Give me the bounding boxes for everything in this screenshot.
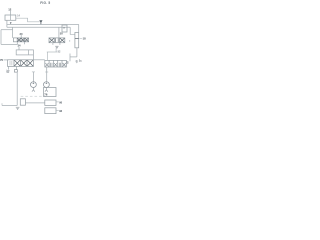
rail R3 short (1, 29, 13, 31)
P2 tee (45, 71, 48, 73)
box C2 (45, 100, 56, 105)
P1 shaft Y (32, 88, 35, 92)
drop from pump left to rails (6, 20, 8, 27)
linkage post (69, 54, 71, 62)
pump P1 circle (31, 82, 37, 88)
V4 cell symbols (45, 63, 65, 67)
box C1 pump unit (44, 88, 57, 97)
lead C2 (56, 101, 59, 103)
V2 bottom stubs (52, 43, 54, 45)
tank junction horizontal (2, 105, 17, 107)
junction left tick (1, 103, 3, 105)
pump unit divider (10, 15, 12, 20)
svg-text:52: 52 (58, 50, 61, 53)
pilot box (16, 50, 33, 55)
lower port stub (69, 40, 71, 42)
solenoid mark (14, 70, 17, 73)
flow arrow on rail R1 left (10, 22, 12, 24)
V3 spring (6, 70, 9, 73)
V2 feed (58, 27, 60, 38)
V3 X symbols (14, 60, 33, 66)
V1 cell dividers (17, 38, 24, 42)
V2 tank symbol (55, 46, 58, 48)
svg-text:14: 14 (17, 14, 20, 18)
pump unit box 12 (5, 15, 16, 20)
V3 cell1 marks (10, 61, 12, 65)
arrow into rail R1 (39, 20, 42, 23)
line from V3 to V4 (34, 59, 45, 61)
V4 cell dividers (49, 60, 62, 67)
pivot hatch right (76, 61, 78, 63)
pipe 14 (stepped) (16, 18, 40, 22)
cylinder piston (75, 38, 79, 40)
valve V4 body (45, 60, 67, 67)
svg-text:FIG. 5: FIG. 5 (40, 1, 50, 5)
lead line from 12 (10, 11, 12, 15)
V2 X symbols (49, 38, 64, 42)
return line y44 (1, 43, 17, 45)
pump P2 circle (44, 82, 50, 88)
junction box B on rails (62, 25, 67, 32)
svg-text:18: 18 (83, 37, 86, 41)
box C3 (45, 108, 56, 114)
lead 18 (80, 38, 83, 40)
linkage line from R2 (69, 27, 71, 34)
V1 bottom stubs (16, 42, 18, 45)
cylinder body (75, 33, 79, 48)
stub to V4 (47, 52, 49, 60)
V2 cell dividers (54, 38, 59, 43)
box B inner mark (63, 27, 65, 29)
piston rod (76, 48, 78, 57)
port into cylinder (70, 34, 75, 36)
tank base line (47, 51, 57, 53)
svg-text:90: 90 (59, 101, 62, 105)
arrow stem (40, 23, 42, 25)
V2 centre cell arrows (56, 38, 59, 42)
tank symbol (16, 107, 20, 110)
left return riser (0, 30, 2, 45)
valve V3 body (8, 60, 34, 67)
pilot drop to valve V3 (32, 55, 34, 60)
pump P1 riser (32, 72, 34, 82)
valve V1 body (13, 38, 28, 42)
lead to V1 (20, 35, 22, 38)
V3 solenoid stub (16, 66, 18, 69)
valve V2 body (49, 38, 65, 43)
P1 tee (32, 71, 35, 73)
lead arrow 70 (4, 59, 8, 61)
svg-text:12: 12 (8, 8, 12, 12)
tank stem (55, 48, 57, 52)
cylinder feed from R1 (78, 25, 80, 33)
V3 cell dividers (14, 60, 27, 67)
pilot tick below label (18, 47, 20, 50)
svg-text:70: 70 (0, 58, 4, 62)
rail R1 (7, 24, 79, 26)
feed from R2 down to valve V1 (12, 27, 14, 38)
left small box C0 (20, 99, 25, 105)
V3 spring stub (8, 66, 10, 69)
pilot box divider (28, 50, 30, 55)
P1 inner mark (32, 82, 34, 84)
svg-text:76: 76 (44, 92, 48, 96)
shaft dash line (21, 95, 47, 97)
P2 shaft Y (45, 88, 48, 92)
svg-text:92: 92 (59, 109, 62, 113)
svg-text:1c: 1c (79, 58, 82, 62)
V1 X symbols (18, 38, 29, 41)
wire C0 to C2 (25, 102, 44, 104)
pump P2 drop (46, 67, 48, 82)
P2 inner mark (45, 82, 47, 84)
tank drop line (16, 72, 18, 105)
rail R2 (7, 26, 70, 28)
lead C3 (56, 109, 59, 111)
linkage bar (70, 56, 77, 58)
pivot hatch left (66, 62, 68, 64)
svg-text:50: 50 (60, 31, 63, 35)
